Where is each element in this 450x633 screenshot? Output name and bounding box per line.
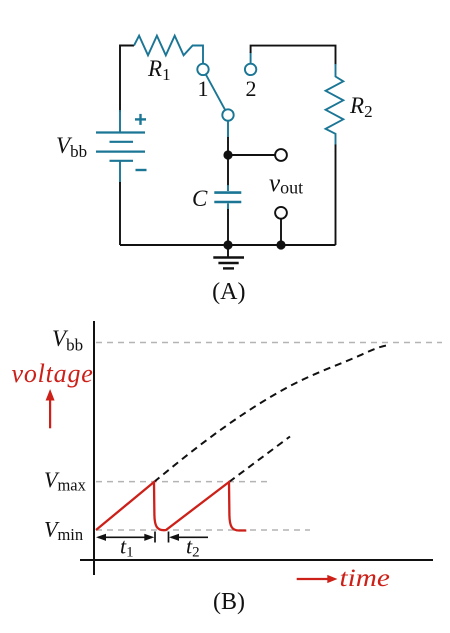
second ramp dashed continuation (229, 437, 290, 483)
wire battery top lead (119, 110, 121, 133)
battery minus (136, 169, 147, 171)
svg-text:voltage: voltage (12, 359, 94, 388)
wire contact 2 lead up (250, 52, 252, 64)
wire battery bottom lead (119, 161, 121, 183)
wire pole to node (227, 137, 229, 155)
capacitor C (214, 185, 241, 210)
wire pole lead down (227, 121, 229, 138)
svg-text:C: C (192, 186, 208, 211)
battery plus (135, 114, 146, 125)
node top (switch/cap/vout junction) (223, 150, 232, 159)
Vbb dashed level line (96, 342, 442, 344)
switch contact 2 (245, 64, 256, 75)
terminal vout bottom (275, 207, 287, 219)
wire node to capacitor (227, 155, 229, 186)
time red arrow (297, 578, 329, 580)
Vmin dashed level line (96, 529, 310, 531)
switch pole circle (222, 109, 233, 120)
resistor R1 (134, 36, 203, 64)
svg-text:2: 2 (246, 76, 257, 101)
voltage red arrow (49, 398, 51, 428)
switch contact 1 (197, 64, 208, 75)
x axis (80, 559, 433, 561)
resistor R2 (326, 64, 344, 146)
y axis (93, 321, 95, 575)
wire bottom rail (120, 244, 336, 246)
svg-text:(B): (B) (213, 589, 245, 615)
node bottom (ground junction) (223, 240, 232, 249)
Vmax dashed level line (96, 481, 269, 483)
charging curve dashed (toward Vbb) (154, 345, 388, 482)
ground (213, 245, 244, 268)
svg-text:1: 1 (198, 76, 209, 101)
node vout bottom junction (276, 240, 285, 249)
battery Vbb (96, 133, 145, 161)
wire node to vout top terminal (228, 154, 276, 156)
svg-text:(A): (A) (212, 279, 245, 305)
wire R2 bottom to corner (335, 145, 337, 246)
wire left bottom (119, 182, 121, 245)
sawtooth waveform (red) (96, 482, 246, 531)
wire capacitor to ground rail (227, 209, 229, 245)
wire vout bottom terminal to ground rail (280, 219, 282, 245)
svg-text:time: time (340, 564, 390, 592)
switch arm (pole to contact 1) (206, 74, 225, 110)
wire left vertical (battery top to R1) (120, 46, 134, 113)
wire top right (contact 2 to R2) (251, 46, 336, 65)
terminal vout top (275, 149, 287, 161)
t1 dimension arrow (98, 532, 208, 543)
